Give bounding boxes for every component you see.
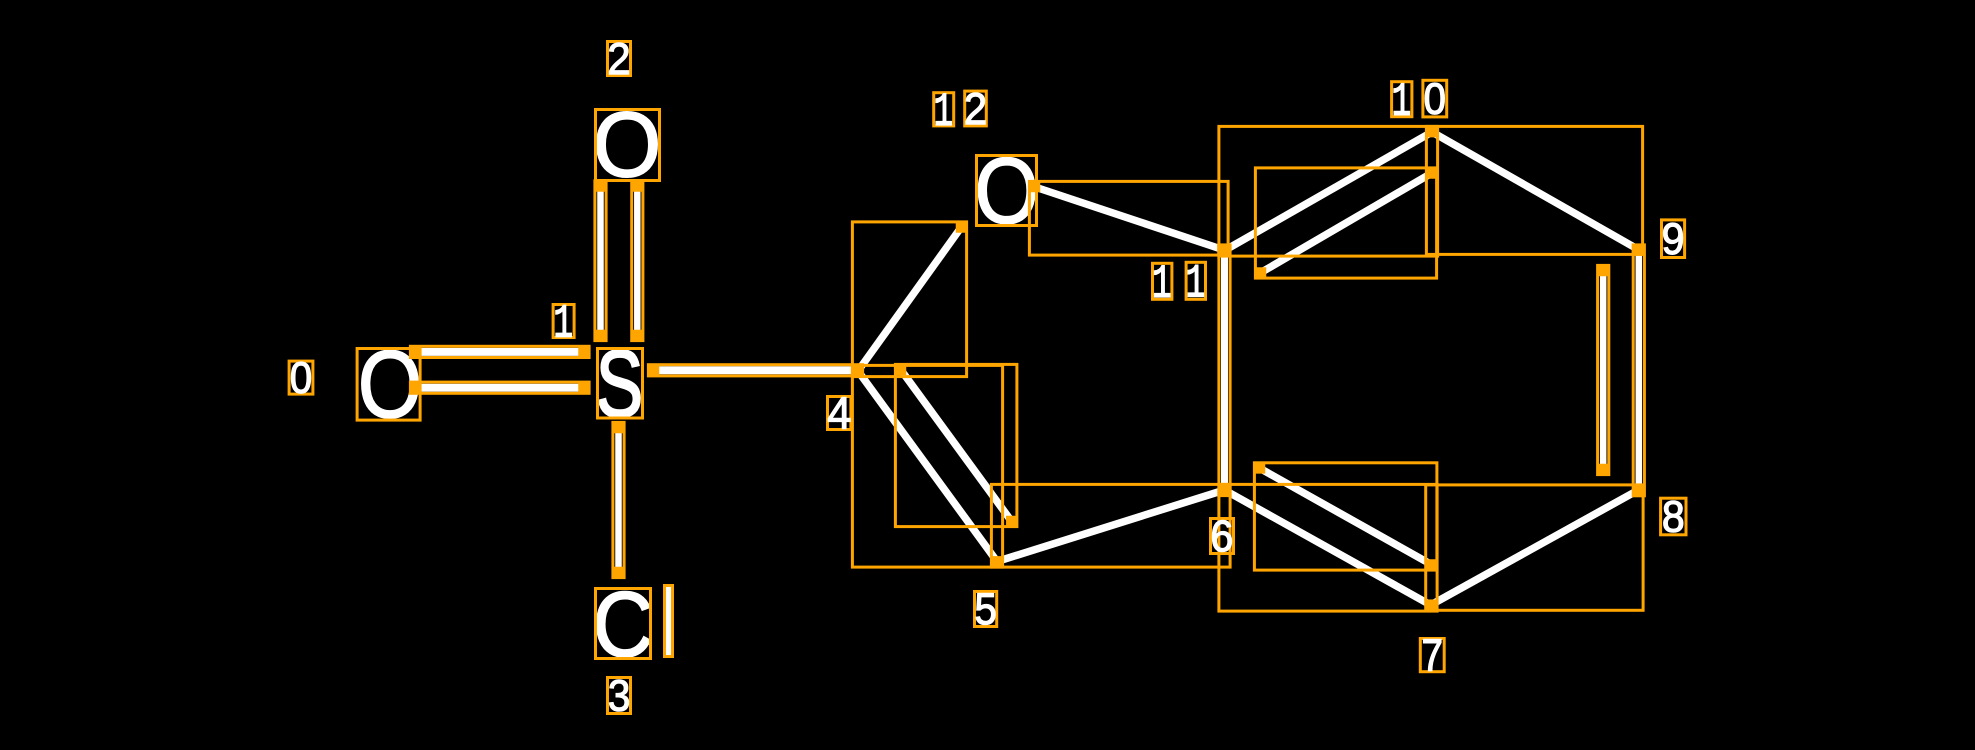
atom S 1	[599, 350, 640, 417]
bond C7=C6 inner line bbox	[1254, 463, 1437, 570]
bond S1-Cl3 endpoint markers	[613, 423, 624, 578]
bond C6-C11 endpoint markers	[1219, 245, 1230, 495]
bond C8-C7 endpoint markers	[1426, 485, 1643, 610]
bond O0=S1 line B bbox	[410, 382, 589, 393]
bond S1=O2 line B endpoint markers	[632, 181, 643, 340]
label 12 digit 1	[934, 93, 954, 126]
atom Cl 3 letter C	[597, 592, 650, 657]
bond S1=O2 line A	[597, 187, 604, 336]
bond C9=C8 inner line	[1600, 271, 1607, 469]
bond C7=C6 inner line endpoint markers	[1255, 463, 1437, 570]
atom Cl 3 box l	[665, 586, 673, 657]
label 5	[975, 592, 997, 627]
bond O12-C11	[1035, 187, 1223, 250]
atom O 0	[362, 350, 418, 418]
bond C11=C10 main line bbox	[1219, 126, 1438, 256]
bond S1-C4 bbox	[648, 365, 862, 376]
atom Cl 3 box C	[596, 589, 651, 659]
bond C8-C7	[1431, 491, 1637, 605]
bond C7=C6 main line	[1225, 490, 1432, 606]
bond C4=C5 inner line bbox	[895, 364, 1017, 526]
label 9	[1662, 220, 1685, 258]
bond C9=C8 main line endpoint markers	[1634, 245, 1645, 495]
label 6	[1211, 519, 1234, 554]
bond S1=O2 line B bbox	[632, 181, 643, 341]
label 8	[1661, 498, 1686, 535]
bond C4-O12 endpoint markers	[853, 222, 967, 376]
label 10 digit 1	[1392, 82, 1412, 117]
bond O0=S1 line B endpoint markers	[411, 382, 589, 393]
bond C9=C8 inner line bbox	[1598, 265, 1609, 474]
label 12 digit 2	[965, 91, 987, 126]
bond C5-C6 endpoint markers	[992, 485, 1230, 567]
bond O12-C11 bbox	[1029, 181, 1228, 255]
label 4	[828, 397, 851, 430]
atom O 2 box	[596, 110, 660, 181]
bond C7=C6 main line bbox	[1219, 484, 1437, 611]
label 10 digit 0	[1423, 80, 1447, 117]
atom O 2	[597, 112, 657, 177]
bond C6-C11 bbox	[1219, 245, 1230, 496]
bond O12-C11 endpoint markers	[1030, 182, 1228, 255]
bond C4-O12 bbox	[852, 222, 966, 377]
bond C4=C5 inner line endpoint markers	[896, 365, 1017, 527]
bond C11=C10 main line	[1225, 132, 1433, 251]
bond S1=O2 line A endpoint markers	[595, 181, 606, 340]
bond C5-C6 bbox	[991, 484, 1230, 567]
label 2	[608, 42, 631, 76]
label 3	[608, 678, 631, 714]
bond C7=C6 inner line	[1260, 468, 1431, 564]
bond O0=S1 line B	[416, 384, 584, 392]
bond C10-C9 endpoint markers	[1427, 127, 1643, 254]
bond S1-Cl3 bbox	[613, 422, 624, 577]
bond C11=C10 inner line bbox	[1255, 168, 1436, 278]
bond C9=C8 main line	[1636, 251, 1643, 491]
bond S1=O2 line A bbox	[595, 181, 606, 341]
bond C4=C5 main line bbox	[852, 365, 1002, 567]
bond S1-Cl3	[615, 428, 622, 572]
bond C4-O12	[858, 228, 961, 372]
atom O 0 box	[357, 349, 420, 421]
bond C4=C5 inner line	[901, 370, 1011, 521]
atom O 12	[978, 158, 1035, 224]
bond C9=C8 inner line endpoint markers	[1598, 266, 1609, 475]
bond C10-C9 bbox	[1426, 126, 1642, 254]
bond O0=S1 line A endpoint markers	[411, 347, 589, 358]
atom O 12 box	[977, 156, 1037, 226]
bond C4=C5 main line	[858, 371, 997, 562]
bond C9=C8 main line bbox	[1633, 245, 1644, 496]
bond C11=C10 inner line	[1261, 174, 1431, 273]
bond S1-C4 endpoint markers	[649, 365, 863, 376]
bond C5-C6	[997, 490, 1225, 562]
label 1	[553, 305, 574, 338]
bond C10-C9	[1432, 132, 1637, 249]
label 0	[289, 361, 313, 394]
bond C8-C7 bbox	[1426, 485, 1643, 610]
bond C11=C10 main line endpoint markers	[1219, 127, 1437, 256]
bond S1=O2 line B	[634, 187, 641, 336]
bond C7=C6 main line endpoint markers	[1219, 485, 1437, 611]
bond C11=C10 inner line endpoint markers	[1256, 168, 1437, 278]
label 11 digit 1b	[1186, 262, 1205, 299]
bond S1-C4	[654, 366, 857, 374]
bond O0=S1 line A bbox	[410, 346, 589, 357]
atom Cl 3 letter l	[664, 584, 672, 657]
label 7	[1420, 639, 1444, 672]
label 11 digit 1a	[1153, 263, 1172, 299]
bond C6-C11	[1221, 251, 1228, 491]
atom S 1 box	[598, 349, 643, 419]
bond O0=S1 line A	[416, 348, 584, 356]
bond C4=C5 main line endpoint markers	[853, 366, 1003, 567]
